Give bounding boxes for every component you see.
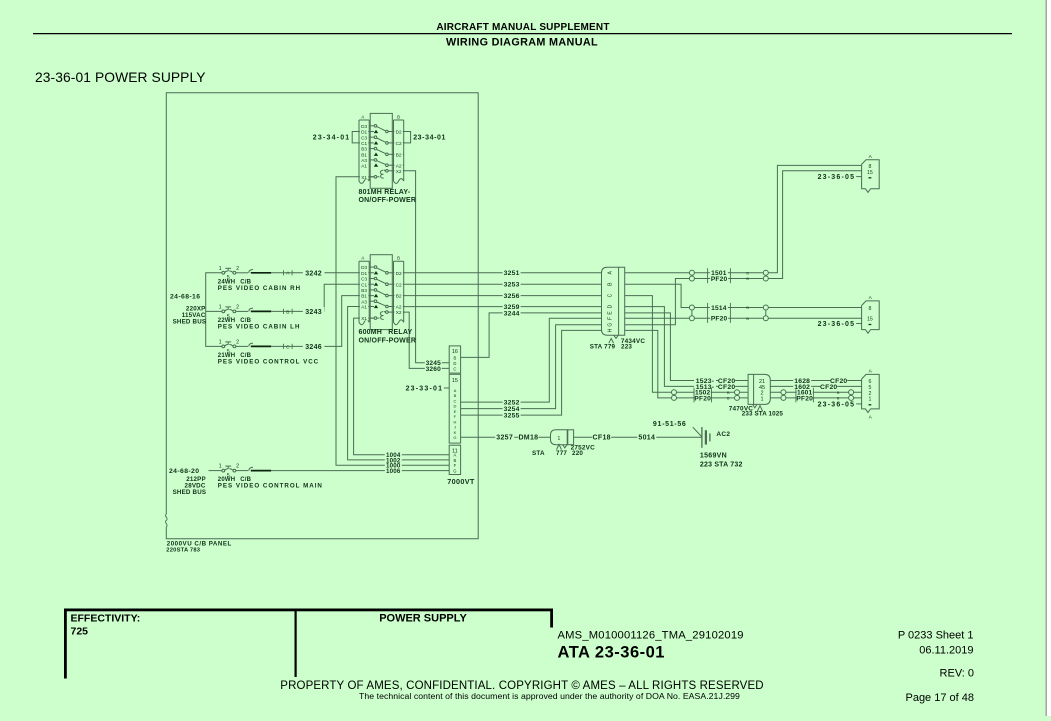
svg-text:1: 1 — [868, 396, 871, 402]
footer page number — [905, 692, 974, 704]
svg-text:D2: D2 — [396, 130, 402, 135]
svg-text:AC2: AC2 — [716, 431, 730, 438]
svg-text:PROPERTY OF AMES, CONFIDENTIAL: PROPERTY OF AMES, CONFIDENTIAL. COPYRIGH… — [280, 680, 763, 692]
svg-text:801MH RELAY-: 801MH RELAY- — [359, 189, 411, 196]
svg-text:CF20: CF20 — [718, 384, 735, 391]
svg-text:CF20: CF20 — [820, 384, 837, 391]
labels 3251 3253 3256 3259 3244 — [503, 270, 521, 318]
svg-text:1514: 1514 — [711, 305, 727, 312]
svg-text:A3: A3 — [361, 299, 367, 304]
wire 3254 — [461, 325, 602, 409]
svg-text:C: C — [607, 293, 613, 297]
splice pair 1502 right — [735, 390, 740, 401]
labels 1628 CF20 1602 CF20 — [793, 378, 847, 391]
splice pair 1502 left — [672, 390, 677, 401]
svg-text:1: 1 — [219, 266, 222, 272]
wire 1502 (pin C to 7470VC pin 2) — [625, 296, 748, 393]
wire 3259 — [404, 306, 602, 308]
svg-text:B: B — [746, 277, 749, 281]
wire 3242 — [271, 269, 374, 278]
svg-text:REV: 0: REV: 0 — [940, 668, 974, 680]
svg-text:PES VIDEO CABIN LH: PES VIDEO CABIN LH — [218, 323, 301, 330]
svg-text:3244: 3244 — [504, 310, 520, 317]
svg-text:D1: D1 — [361, 271, 367, 276]
svg-text:B: B — [727, 397, 730, 401]
svg-text:PES VIDEO CONTROL MAIN: PES VIDEO CONTROL MAIN — [218, 483, 323, 490]
svg-text:A: A — [361, 114, 364, 119]
svg-text:AMS_M010001126_TMA_29102019: AMS_M010001126_TMA_29102019 — [558, 630, 744, 642]
wire 3245 (X2 801MH to 7000VT-16D) — [404, 171, 450, 363]
svg-text:C: C — [286, 344, 290, 350]
splice pair 1601 left — [781, 390, 786, 401]
connector 23-36-05 middle — [818, 295, 880, 333]
connector 7000VT section 16 — [449, 346, 460, 373]
svg-text:K: K — [454, 430, 457, 435]
connector 23-36-05 bottom — [818, 369, 880, 421]
svg-text:B: B — [397, 256, 400, 261]
svg-text:C3: C3 — [361, 277, 367, 282]
svg-text:220: 220 — [572, 450, 583, 457]
connector 7000VT section 15 — [449, 374, 460, 443]
svg-text:RELAY: RELAY — [388, 329, 412, 336]
svg-text:725: 725 — [71, 626, 89, 638]
svg-text:8: 8 — [868, 306, 871, 312]
wire PF20 return (pin G to 23-36-05 top pin 15) — [625, 171, 862, 325]
svg-text:B: B — [837, 397, 840, 401]
effectivity text — [71, 613, 141, 638]
svg-text:F: F — [454, 463, 457, 468]
svg-text:B: B — [746, 272, 749, 276]
reference 23-34-01 right bracket — [404, 132, 446, 143]
label 1501 / PF20 — [708, 268, 750, 283]
wire 3243 — [271, 284, 374, 316]
labels 1523 CF20 / 1513 CF20 — [694, 378, 735, 391]
svg-text:1: 1 — [219, 464, 222, 470]
svg-text:3260: 3260 — [426, 366, 442, 373]
svg-text:3242: 3242 — [305, 270, 322, 277]
svg-text:STA: STA — [532, 450, 545, 457]
connector 7000VT label — [447, 477, 475, 486]
connector 7000VT section 11 — [449, 445, 460, 474]
reference 23-33-01 — [406, 385, 450, 392]
svg-text:3253: 3253 — [504, 282, 520, 289]
svg-text:ON/OFF-POWER: ON/OFF-POWER — [359, 197, 417, 204]
svg-text:B: B — [454, 355, 457, 360]
svg-text:23-36-01 POWER SUPPLY: 23-36-01 POWER SUPPLY — [35, 70, 206, 85]
wire 3244 (7000VT-16B to 7434VC) — [461, 313, 602, 358]
svg-text:3257: 3257 — [496, 435, 513, 442]
svg-text:3256: 3256 — [504, 293, 520, 300]
svg-text:B: B — [746, 306, 749, 310]
ground AC2 — [702, 427, 730, 448]
svg-text:B2: B2 — [396, 152, 402, 157]
wire 3246 — [271, 296, 374, 351]
svg-text:PES VIDEO CABIN RH: PES VIDEO CABIN RH — [218, 285, 301, 292]
footer document id — [558, 630, 744, 642]
svg-text:X1: X1 — [361, 175, 367, 180]
svg-text:X2: X2 — [396, 310, 402, 315]
svg-text:23-34-01: 23-34-01 — [313, 134, 351, 141]
svg-text:D1: D1 — [361, 130, 367, 135]
panel boundary 2000VU C/B PANEL — [165, 93, 478, 554]
svg-text:23-34-01: 23-34-01 — [413, 134, 446, 141]
footer title POWER SUPPLY — [379, 613, 467, 625]
svg-text:2000VU C/B PANEL: 2000VU C/B PANEL — [167, 540, 232, 547]
wire 1501 PF20 (pin A to 23-36-05 top pin 8) — [625, 165, 862, 272]
svg-text:PF20: PF20 — [711, 316, 728, 323]
svg-text:POWER SUPPLY: POWER SUPPLY — [379, 613, 467, 625]
svg-text:D: D — [607, 304, 613, 308]
svg-text:2: 2 — [236, 305, 239, 311]
connector 23-36-05 top — [818, 154, 880, 192]
svg-text:D: D — [453, 404, 456, 409]
svg-text:3255: 3255 — [504, 413, 520, 420]
circuit breaker 21WH PES VIDEO CONTROL VCC — [218, 340, 319, 366]
svg-text:X2: X2 — [396, 169, 402, 174]
svg-text:A: A — [454, 388, 457, 393]
footer sheet info — [898, 630, 974, 680]
connector 7470VC — [729, 374, 784, 417]
svg-text:B3: B3 — [361, 147, 367, 152]
svg-text:C1: C1 — [361, 141, 367, 146]
connector 7434VC — [590, 267, 646, 350]
svg-text:The technical content of this: The technical content of this document i… — [359, 691, 740, 701]
labels 1004 1002 1000 1006 — [385, 452, 402, 475]
wire 3257 DM18 — [461, 433, 551, 442]
svg-text:1569VN: 1569VN — [700, 453, 727, 460]
effectivity box frame — [64, 609, 553, 679]
splice pair 1601 right — [849, 390, 854, 401]
svg-text:A1: A1 — [361, 305, 367, 310]
wire CF18 5014 — [574, 433, 702, 442]
svg-text:P 0233 Sheet 1: P 0233 Sheet 1 — [898, 630, 974, 642]
svg-text:23-33-01: 23-33-01 — [406, 385, 444, 392]
svg-text:A1: A1 — [361, 163, 367, 168]
wire 1628 CF20 (7470VC-21 to 23-36-05 pin 6) — [770, 380, 861, 382]
reference 91-51-56 callout — [653, 421, 702, 437]
wire 1602 CF20 (7470VC-45 to 23-36-05 pin 5) — [770, 385, 861, 387]
wire PF20 1601 return (7470VC-1 to 23-36-05 pin 1) — [770, 397, 861, 399]
connector 2752VC — [532, 430, 595, 457]
svg-text:B: B — [837, 391, 840, 395]
circuit breaker 24WH PES VIDEO CABIN RH — [218, 266, 301, 292]
svg-text:D3: D3 — [361, 124, 367, 129]
wire 3251 — [404, 272, 602, 274]
footer property notice — [280, 680, 763, 701]
svg-text:D: D — [453, 361, 456, 366]
wire 3253 — [404, 283, 602, 285]
svg-text:H: H — [453, 419, 456, 424]
svg-text:223: 223 — [621, 343, 632, 350]
svg-text:3246: 3246 — [305, 344, 322, 351]
svg-text:600MH: 600MH — [359, 329, 383, 336]
svg-text:C: C — [453, 367, 456, 372]
header rule line — [33, 33, 1012, 35]
svg-text:C2: C2 — [396, 282, 402, 287]
circuit breaker 20WH PES VIDEO CONTROL MAIN — [218, 464, 323, 490]
wire 1000 (X1 801MH to 7000VT-11F) — [336, 177, 449, 465]
svg-text:1006: 1006 — [386, 468, 401, 475]
svg-text:ON/OFF-POWER: ON/OFF-POWER — [359, 337, 417, 344]
svg-text:F: F — [607, 317, 613, 320]
svg-text:STA 779: STA 779 — [590, 343, 616, 350]
svg-text:STA 1025: STA 1025 — [755, 411, 784, 418]
svg-text:PES VIDEO CONTROL VCC: PES VIDEO CONTROL VCC — [218, 358, 319, 365]
labels 3245 3260 — [425, 360, 442, 373]
svg-text:EFFECTIVITY:: EFFECTIVITY: — [71, 613, 141, 625]
svg-text:B2: B2 — [396, 294, 402, 299]
svg-text:D3: D3 — [361, 265, 367, 270]
svg-text:Page 17 of 48: Page 17 of 48 — [905, 692, 974, 704]
svg-text:G: G — [453, 469, 456, 474]
circuit breaker 22WH PES VIDEO CABIN LH — [218, 305, 301, 331]
wire 3260 (X2 600MH to 7000VT-16C) — [404, 312, 450, 368]
svg-text:15: 15 — [452, 378, 458, 384]
svg-text:B: B — [454, 393, 457, 398]
svg-text:5014: 5014 — [638, 435, 655, 442]
wire 1004 (X1 600MH to 7000VT-11A) — [354, 318, 450, 455]
header title AIRCRAFT MANUAL SUPPLEMENT — [436, 22, 609, 33]
svg-text:ATA 23-36-01: ATA 23-36-01 — [558, 644, 665, 662]
wire 1002 (A1 600MH to 7000VT-11B) — [348, 307, 450, 460]
svg-text:220STA 783: 220STA 783 — [166, 548, 200, 554]
svg-text:CF18: CF18 — [593, 435, 611, 442]
svg-text:C: C — [453, 398, 456, 403]
svg-text:24-68-16: 24-68-16 — [170, 294, 200, 301]
svg-text:24-68-20: 24-68-20 — [169, 468, 199, 475]
svg-text:15: 15 — [867, 170, 873, 176]
wire PF20 1502 return (pin H to 7470VC pin 1) — [625, 330, 748, 398]
wire 1006 (20WH C/B to 7000VT-11G) — [271, 470, 449, 472]
svg-text:X1: X1 — [361, 316, 367, 321]
svg-text:C3: C3 — [361, 135, 367, 140]
svg-text:B: B — [746, 317, 749, 321]
svg-text:23-36-05: 23-36-05 — [818, 174, 856, 181]
svg-text:SHED BUS: SHED BUS — [173, 489, 207, 496]
svg-text:C2: C2 — [396, 141, 402, 146]
wire 1514 (pin B to 23-36-05 mid pin 8) — [625, 284, 862, 307]
svg-text:DM18: DM18 — [518, 435, 538, 442]
footer ATA number — [558, 644, 665, 662]
svg-text:A3: A3 — [361, 158, 367, 163]
svg-text:B: B — [286, 309, 289, 315]
label 1502 / PF20 — [694, 388, 730, 403]
svg-text:223 STA 732: 223 STA 732 — [700, 461, 743, 468]
svg-text:WIRING DIAGRAM MANUAL: WIRING DIAGRAM MANUAL — [446, 37, 598, 49]
splice pair 1501 left — [689, 270, 694, 281]
svg-text:777: 777 — [556, 450, 567, 457]
relay 801MH ON/OFF-POWER — [359, 113, 417, 204]
svg-text:C1: C1 — [361, 282, 367, 287]
wire 3252 — [461, 318, 602, 402]
node 24-68-20 212PP 28VDC SHED BUS — [169, 468, 222, 496]
diagram title 23-36-01 POWER SUPPLY — [35, 70, 206, 85]
svg-text:J: J — [454, 425, 456, 430]
wire 3256 — [404, 295, 602, 297]
svg-text:23-36-05: 23-36-05 — [818, 402, 856, 409]
svg-text:2: 2 — [236, 340, 239, 346]
svg-text:PF20: PF20 — [796, 395, 813, 402]
svg-text:H: H — [607, 328, 613, 332]
label 1514 / PF20 — [708, 303, 750, 323]
svg-text:E: E — [454, 409, 457, 414]
wire PF20 1514 return (pin F to 23-36-05 mid pin 15) — [625, 317, 862, 319]
svg-text:B1: B1 — [361, 294, 367, 299]
svg-text:AIRCRAFT MANUAL SUPPLEMENT: AIRCRAFT MANUAL SUPPLEMENT — [436, 22, 609, 33]
wire 1523 CF20 (pin E to 7470VC pin 21) — [625, 313, 748, 381]
svg-text:2: 2 — [236, 266, 239, 272]
svg-text:3243: 3243 — [305, 309, 322, 316]
svg-text:A2: A2 — [396, 305, 402, 310]
svg-text:D2: D2 — [396, 271, 402, 276]
reference 23-34-01 left bracket — [313, 132, 374, 143]
relay 600MH ON/OFF-POWER — [359, 255, 417, 345]
header title WIRING DIAGRAM MANUAL — [446, 37, 598, 49]
svg-text:B3: B3 — [361, 288, 367, 293]
svg-text:B: B — [454, 458, 457, 463]
label 1601 / PF20 — [796, 388, 840, 403]
svg-text:1: 1 — [558, 436, 561, 442]
splice pair 1514 left — [689, 305, 694, 321]
svg-text:15: 15 — [867, 316, 873, 322]
svg-text:1: 1 — [219, 305, 222, 311]
svg-text:23-36-05: 23-36-05 — [818, 321, 856, 328]
page edge stripe — [1046, 0, 1051, 716]
wire 3255 — [461, 330, 602, 415]
svg-text:233: 233 — [742, 411, 753, 418]
svg-text:1: 1 — [219, 340, 222, 346]
svg-text:7000VT: 7000VT — [447, 477, 475, 486]
svg-text:G: G — [607, 323, 613, 327]
wire 1601 (7470VC-2 to 23-36-05 pin 2) — [770, 391, 861, 393]
node 1569VN 223 STA 732 — [700, 453, 743, 469]
splice pair 1501 right — [763, 270, 768, 281]
labels 3252 3254 3255 — [503, 399, 521, 419]
svg-text:06.11.2019: 06.11.2019 — [919, 645, 973, 657]
svg-text:B1: B1 — [361, 152, 367, 157]
svg-text:PF20: PF20 — [711, 276, 728, 283]
svg-text:A2: A2 — [396, 163, 402, 168]
svg-text:B: B — [727, 391, 730, 395]
svg-text:PF20: PF20 — [694, 395, 711, 402]
node 24-68-16 220XP 115VAC SHED BUS — [170, 273, 222, 347]
svg-text:B: B — [397, 114, 400, 119]
svg-text:91-51-56: 91-51-56 — [653, 421, 687, 428]
svg-text:2: 2 — [236, 464, 239, 470]
svg-text:G: G — [453, 435, 456, 440]
svg-text:16: 16 — [452, 349, 458, 355]
svg-text:1: 1 — [760, 396, 763, 402]
wire 1513 CF20 (pin D to 7470VC pin 45) — [625, 307, 748, 387]
splice pair 1514 right — [763, 305, 768, 321]
svg-text:SHED BUS: SHED BUS — [173, 318, 207, 325]
svg-text:1602: 1602 — [794, 384, 810, 391]
svg-text:3251: 3251 — [504, 270, 520, 277]
svg-text:A: A — [361, 256, 364, 261]
